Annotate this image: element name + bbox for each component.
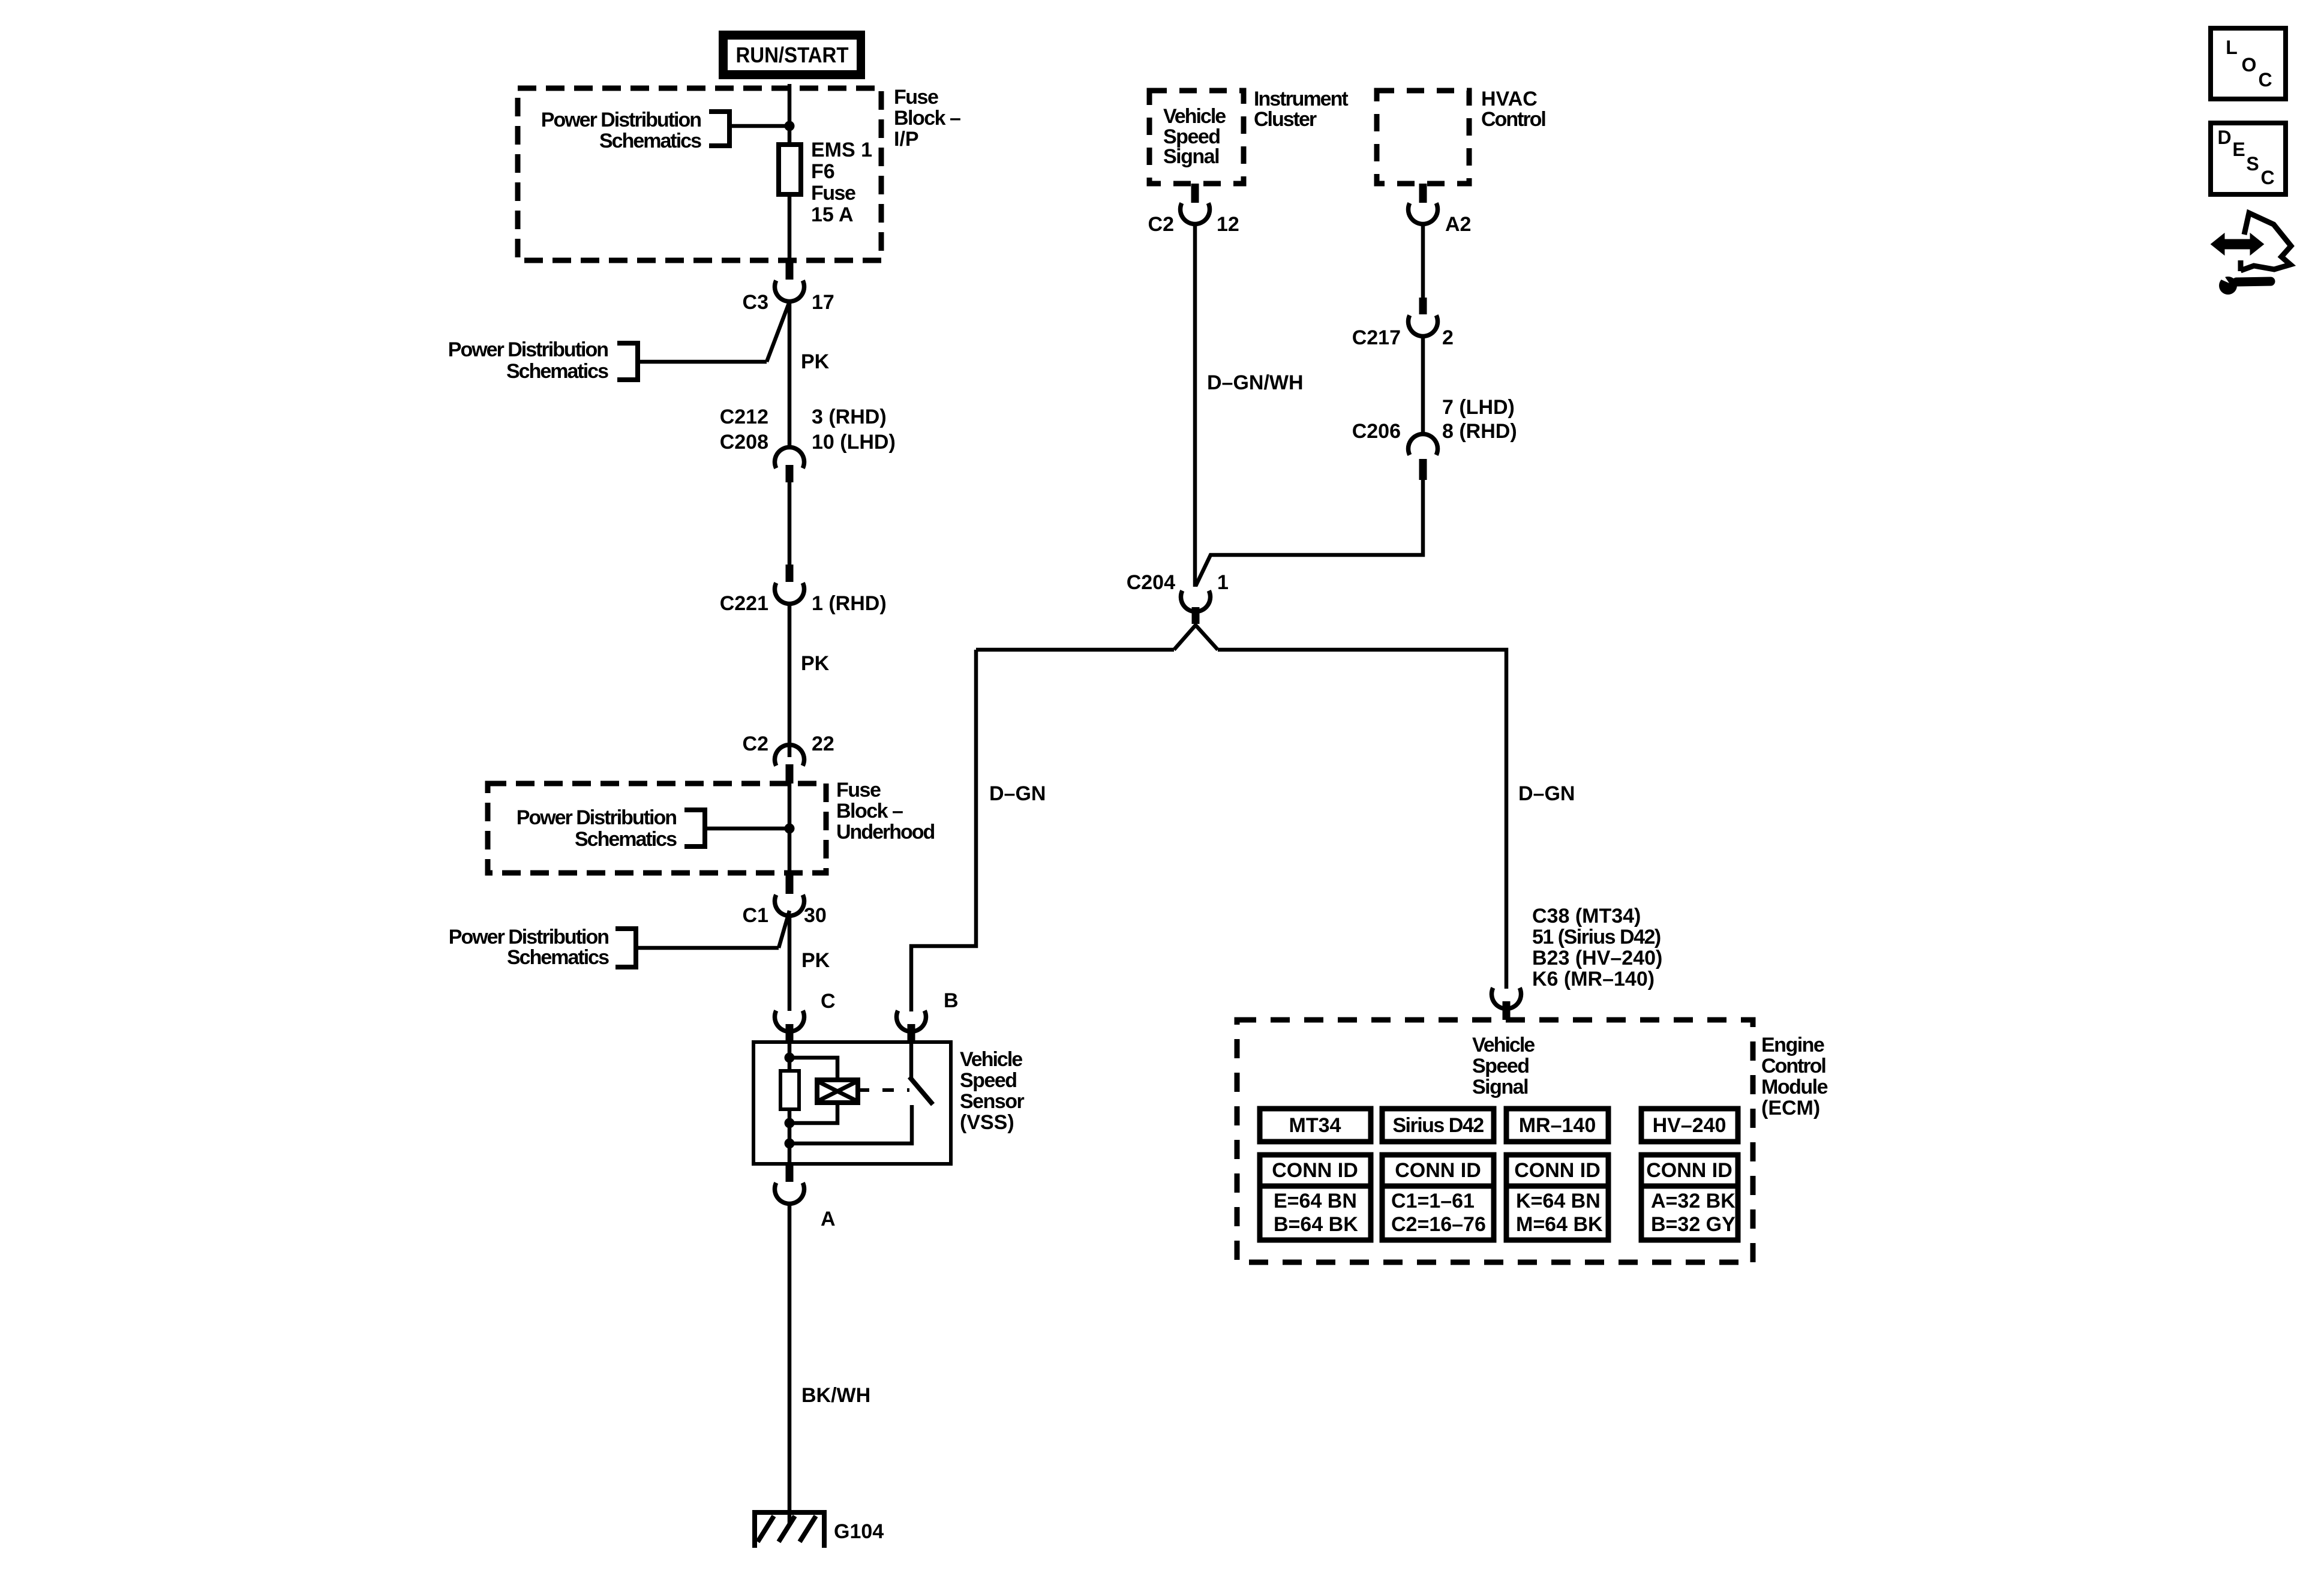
VSS pin C connector (775, 1011, 804, 1043)
svg-text:22: 22 (812, 733, 834, 755)
svg-text:CONN ID: CONN ID (1646, 1159, 1733, 1182)
VSS signal coil (817, 1080, 858, 1103)
svg-text:D–GN/WH: D–GN/WH (1207, 371, 1304, 394)
svg-text:Cluster: Cluster (1254, 108, 1317, 131)
wire signal coil bottom (789, 1101, 837, 1123)
label pin 2 (1442, 326, 1454, 349)
svg-text:C212: C212 (720, 406, 768, 428)
svg-text:C1=1–61: C1=1–61 (1391, 1190, 1475, 1212)
node junction at fuse F6 top (785, 121, 795, 131)
label D-GN left (989, 782, 1046, 805)
svg-text:17: 17 (812, 291, 834, 314)
svg-text:12: 12 (1217, 213, 1239, 236)
svg-text:C204: C204 (1127, 571, 1175, 594)
label C2 (cluster) (1148, 213, 1174, 236)
svg-text:(VSS): (VSS) (960, 1111, 1014, 1134)
svg-text:Fuse: Fuse (811, 182, 855, 205)
DESC icon (2211, 123, 2286, 194)
svg-text:S: S (2246, 153, 2259, 175)
svg-text:C38 (MT34): C38 (MT34) (1532, 905, 1641, 927)
label PK wire color (lower) (801, 949, 830, 972)
label Vehicle Speed Signal (cluster) (1163, 105, 1226, 168)
reference Power Distribution Schematics (underhood) (517, 806, 789, 851)
VSS internal resistor (780, 1071, 799, 1109)
svg-text:2: 2 (1442, 326, 1454, 349)
VSS switch (909, 1041, 933, 1104)
gateway arrow-vehicle-wrench icon (2212, 213, 2291, 295)
svg-text:Instrument: Instrument (1254, 88, 1348, 110)
vehicle speed sensor VSS box (753, 1042, 951, 1164)
label C221 (720, 592, 768, 615)
conn id table Sirius D42 (1382, 1155, 1494, 1240)
wire HVAC A2 to C217 (1421, 223, 1425, 299)
svg-text:C217: C217 (1352, 326, 1401, 349)
ignition switch feed RUN/START (719, 31, 865, 79)
fuse block I/P dashed box (518, 88, 881, 260)
connector C217 pin 2 (1409, 298, 1438, 336)
svg-text:Speed: Speed (960, 1069, 1017, 1092)
wire C212 to C221 (788, 482, 792, 566)
label VSS pin A (821, 1208, 836, 1230)
connector A2 (HVAC) (1409, 184, 1438, 224)
svg-text:L: L (2226, 37, 2238, 58)
label PK wire color (middle) (801, 652, 830, 675)
label C2 (743, 733, 768, 755)
conn id table MT34 (1260, 1155, 1371, 1240)
svg-text:Underhood: Underhood (836, 821, 935, 843)
label C212 C208 (720, 406, 768, 454)
svg-text:Vehicle: Vehicle (1163, 105, 1226, 128)
HVAC control dashed box (1377, 91, 1469, 184)
wire fuse F6 to connector C3 (788, 197, 792, 262)
wye split below C204 (1174, 625, 1218, 650)
label pins 3 RHD 10 LHD (812, 406, 896, 454)
label Fuse Block - I/P (894, 86, 960, 151)
label pin 1 RHD (812, 592, 887, 615)
wire D-GN right branch to ECM (1218, 650, 1506, 989)
svg-text:F6: F6 (811, 160, 835, 183)
reference Power Distribution Schematics (C1) (449, 911, 789, 969)
conn id table HV-240 (1641, 1155, 1738, 1240)
svg-text:Schematics: Schematics (506, 360, 608, 383)
svg-text:O: O (2242, 54, 2257, 76)
svg-text:1: 1 (1217, 571, 1229, 594)
svg-text:Vehicle: Vehicle (960, 1048, 1022, 1071)
mechanical link dashed line (858, 1088, 909, 1092)
svg-text:Control: Control (1481, 108, 1545, 131)
reference Power Distribution Schematics (C3) (448, 302, 789, 383)
svg-text:E: E (2232, 139, 2245, 160)
svg-text:M=64 BK: M=64 BK (1516, 1213, 1603, 1236)
svg-text:Schematics: Schematics (507, 946, 609, 969)
svg-text:Schematics: Schematics (575, 828, 677, 851)
svg-text:HV–240: HV–240 (1653, 1114, 1727, 1137)
svg-text:Power Distribution: Power Distribution (541, 109, 701, 131)
svg-text:CONN ID: CONN ID (1272, 1159, 1358, 1182)
label pin 22 (812, 733, 834, 755)
svg-text:(ECM): (ECM) (1761, 1097, 1820, 1119)
svg-text:Block –: Block – (836, 800, 903, 822)
label VSS pin C (821, 990, 836, 1013)
svg-text:15 A: 15 A (811, 203, 854, 226)
svg-text:C1: C1 (743, 904, 768, 927)
svg-text:Control: Control (1761, 1055, 1825, 1077)
label C1 (743, 904, 768, 927)
label ECM pin ids C38 51 B23 K6 (1532, 905, 1662, 990)
svg-text:PK: PK (801, 949, 830, 972)
svg-text:K=64 BN: K=64 BN (1516, 1190, 1601, 1212)
svg-text:D: D (2217, 127, 2231, 148)
label VSS pin B (944, 989, 959, 1012)
LOC icon (2211, 28, 2286, 99)
fuse block underhood dashed box (488, 784, 826, 873)
fuse F6 EMS 1 15 A (779, 145, 801, 194)
label G104 (834, 1520, 884, 1543)
label pin 12 (1217, 213, 1239, 236)
svg-text:PK: PK (801, 652, 830, 675)
svg-text:A=32 BK: A=32 BK (1651, 1190, 1736, 1212)
label D-GN right (1518, 782, 1575, 805)
node junction in underhood block (785, 824, 795, 834)
label Vehicle Speed Sensor (VSS) (960, 1048, 1025, 1134)
wire BK/WH VSS to ground (788, 1202, 792, 1524)
wire resistor to bottom junctions (788, 1109, 792, 1164)
connector C2 pin 22 (775, 745, 804, 784)
connector C212/C208 pass-through (775, 448, 804, 482)
label pin 1 (C204) (1217, 571, 1229, 594)
svg-text:D–GN: D–GN (1518, 782, 1575, 805)
svg-text:C208: C208 (720, 431, 768, 454)
wire VSS pin C internal (788, 1043, 792, 1071)
label Instrument Cluster (1254, 88, 1348, 131)
wire RUN/START into fuse block (788, 84, 792, 126)
svg-text:EMS 1: EMS 1 (811, 139, 872, 161)
svg-text:10 (LHD): 10 (LHD) (812, 431, 896, 454)
svg-text:E=64 BN: E=64 BN (1274, 1190, 1357, 1212)
label C206 (1352, 420, 1401, 443)
svg-text:3 (RHD): 3 (RHD) (812, 406, 887, 428)
svg-text:Schematics: Schematics (599, 130, 701, 152)
instrument cluster vehicle speed signal dashed box (1149, 91, 1244, 184)
svg-text:C: C (821, 990, 836, 1013)
label pin 30 (804, 904, 827, 927)
svg-text:C3: C3 (743, 291, 768, 314)
svg-text:Vehicle: Vehicle (1472, 1034, 1535, 1056)
label HVAC Control (1481, 88, 1545, 131)
wire to signal coil top (789, 1058, 837, 1082)
svg-text:Power Distribution: Power Distribution (517, 806, 676, 829)
svg-text:Module: Module (1761, 1076, 1828, 1098)
svg-text:C206: C206 (1352, 420, 1401, 443)
svg-text:C2: C2 (743, 733, 768, 755)
svg-text:C2: C2 (1148, 213, 1174, 236)
svg-text:Power Distribution: Power Distribution (448, 338, 608, 361)
svg-text:BK/WH: BK/WH (801, 1384, 870, 1407)
svg-text:30: 30 (804, 904, 827, 927)
label pin 17 (812, 291, 834, 314)
engine control module dashed box (1237, 1020, 1753, 1262)
connector C2 pin 12 (cluster) (1181, 184, 1210, 224)
svg-text:7 (LHD): 7 (LHD) (1442, 396, 1515, 419)
svg-text:1 (RHD): 1 (RHD) (812, 592, 887, 615)
connector C204 pin 1 (1181, 591, 1211, 624)
svg-text:Speed: Speed (1472, 1055, 1529, 1077)
svg-text:A2: A2 (1445, 213, 1471, 236)
label C204 (1127, 571, 1175, 594)
svg-text:Fuse: Fuse (894, 86, 938, 109)
label Engine Control Module (ECM) (1761, 1034, 1828, 1119)
svg-text:Block –: Block – (894, 107, 960, 130)
svg-text:MT34: MT34 (1289, 1114, 1341, 1137)
svg-text:B23 (HV–240): B23 (HV–240) (1532, 947, 1662, 969)
label pin A2 (1445, 213, 1471, 236)
svg-text:RUN/START: RUN/START (736, 43, 849, 67)
wire to switch lower contact (789, 1105, 912, 1143)
svg-text:K6 (MR–140): K6 (MR–140) (1532, 968, 1655, 990)
svg-text:Sirius D42: Sirius D42 (1392, 1114, 1484, 1137)
svg-text:C221: C221 (720, 592, 768, 615)
svg-text:I/P: I/P (894, 128, 919, 151)
svg-text:Power Distribution: Power Distribution (449, 926, 608, 948)
wire D-GN/WH cluster to C204 (1193, 223, 1197, 587)
node VSS internal low junction (785, 1139, 795, 1149)
svg-text:CONN ID: CONN ID (1514, 1159, 1601, 1182)
option box MR-140 (1506, 1109, 1608, 1142)
svg-text:8 (RHD): 8 (RHD) (1442, 420, 1517, 443)
wire PK C3 to C212 (788, 300, 792, 449)
svg-text:B: B (944, 989, 959, 1012)
wire through underhood block (788, 784, 792, 875)
VSS pin B connector (897, 1011, 926, 1041)
svg-text:C2=16–76: C2=16–76 (1391, 1213, 1486, 1236)
label BK/WH wire color (801, 1384, 870, 1407)
connector C1 pin 30 (775, 875, 804, 915)
svg-text:C: C (2260, 167, 2274, 188)
wire C206 to C204 junction (1196, 480, 1423, 586)
svg-text:C: C (2258, 69, 2272, 91)
connector C3 pin 17 (775, 260, 804, 301)
svg-text:CONN ID: CONN ID (1395, 1159, 1481, 1182)
label C217 (1352, 326, 1401, 349)
svg-text:Engine: Engine (1761, 1034, 1824, 1056)
svg-text:MR–140: MR–140 (1519, 1114, 1596, 1137)
svg-text:Signal: Signal (1472, 1076, 1528, 1098)
svg-text:B=64 BK: B=64 BK (1274, 1213, 1358, 1236)
svg-text:PK: PK (801, 350, 830, 373)
label PK wire color (upper) (801, 350, 830, 373)
svg-text:HVAC: HVAC (1481, 88, 1538, 110)
label D-GN/WH wire color (1207, 371, 1304, 394)
option box HV-240 (1641, 1109, 1738, 1142)
node VSS internal mid junction (785, 1118, 795, 1128)
svg-text:A: A (821, 1208, 836, 1230)
wire junction to fuse F6 (788, 126, 792, 142)
label Vehicle Speed Signal (ECM) (1472, 1034, 1535, 1098)
svg-text:D–GN: D–GN (989, 782, 1046, 805)
conn id table MR-140 (1506, 1155, 1608, 1240)
option box Sirius D42 (1382, 1109, 1494, 1142)
svg-text:Signal: Signal (1163, 145, 1219, 168)
label C3 (743, 291, 768, 314)
svg-text:Fuse: Fuse (836, 779, 881, 801)
option box MT34 (1260, 1109, 1371, 1142)
label Fuse Block - Underhood (836, 779, 935, 843)
svg-text:51 (Sirius D42): 51 (Sirius D42) (1532, 926, 1661, 948)
node VSS internal top junction (785, 1053, 795, 1063)
wire PK C221 to C2 (788, 602, 792, 757)
svg-text:G104: G104 (834, 1520, 884, 1543)
reference Power Distribution Schematics (I/P) (541, 109, 789, 152)
wire C217 to C206 (1421, 335, 1425, 436)
label pins 7 LHD 8 RHD (1442, 396, 1517, 443)
svg-text:Sensor: Sensor (960, 1090, 1025, 1113)
label EMS 1 F6 Fuse 15 A (811, 139, 872, 226)
connector C206 (1409, 434, 1438, 480)
ECM input pin connector (1492, 988, 1521, 1020)
connector C221 pin 1 RHD (775, 565, 804, 604)
VSS pin A connector (775, 1164, 804, 1203)
wire PK C1 to VSS pin C (788, 914, 792, 1011)
wire D-GN left branch to VSS pin B (911, 650, 1174, 1011)
ground G104 symbol (752, 1512, 827, 1548)
svg-text:B=32 GY: B=32 GY (1651, 1213, 1736, 1236)
